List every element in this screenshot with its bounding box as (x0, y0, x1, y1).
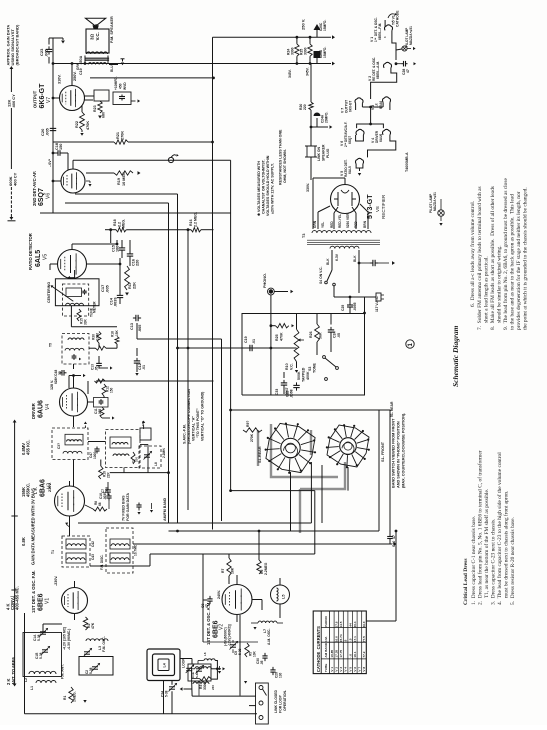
svg-text:7V FIXED BIAS: 7V FIXED BIAS (122, 495, 126, 521)
svg-text:MAZDA ⅑51: MAZDA ⅑51 (409, 26, 413, 45)
svg-text:V1: V1 (45, 598, 51, 604)
svg-text:V 3: V 3 (339, 667, 343, 672)
svg-text:MEG.: MEG. (122, 219, 126, 228)
svg-text:6AU6: 6AU6 (38, 400, 45, 418)
svg-text:20MFD.: 20MFD. (325, 112, 329, 123)
svg-text:BRN: BRN (363, 220, 367, 228)
wire: AVC bus y213 (40, 212, 231, 214)
wire: plate bus vertical x53 (52, 38, 54, 213)
resistor R2 47K (83, 617, 95, 630)
wires: IF cluster links (74, 442, 149, 487)
svg-text:V6: V6 (46, 193, 52, 199)
pilot lamp near rectifier (345, 166, 444, 226)
svg-text:.005: .005 (105, 487, 109, 493)
wire: B+ line y63.5 to filter (52, 62, 335, 66)
label: APPROX GAIN DATA USING SIGNALYST (BROADCAST BAND) (6, 24, 20, 66)
label C17 .005 (100, 284, 110, 293)
svg-text:.6: .6 (344, 639, 348, 642)
svg-text:250V.: 250V. (73, 71, 77, 81)
wires: transformer to rectifier (313, 178, 368, 229)
svg-text:R1: R1 (63, 696, 67, 700)
svg-text:15.74: 15.74 (339, 634, 343, 642)
svg-text:TUBE: TUBE (324, 664, 328, 672)
svg-text:17.75: 17.75 (339, 650, 343, 658)
wire: top stub with ground (49, 38, 65, 44)
label: 12K 400 CY (7, 94, 17, 108)
svg-text:270K: 270K (121, 131, 125, 140)
svg-text:F.M. ANT.: F.M. ANT. (61, 664, 65, 679)
label: OUTPUT 6K6-GT V7 (33, 83, 53, 109)
loop antenna L4 (147, 649, 186, 681)
wire: y472.6 line (110, 471, 170, 474)
svg-text:RED-YEL: RED-YEL (338, 214, 342, 228)
svg-text:400K: 400K (306, 371, 310, 380)
thick shielded leads to band switch (258, 424, 345, 533)
svg-text:✱ VOLTAGES MEASURED WITH: ✱ VOLTAGES MEASURED WITH (257, 161, 261, 216)
svg-text:2.2MH.: 2.2MH. (162, 448, 166, 458)
pilot lamp P1 Mazda 51 (396, 26, 416, 51)
wire: horizontal y348 (volume feed) (176, 347, 293, 350)
svg-text:OPERATION.: OPERATION. (283, 690, 287, 711)
label: 1ST DET & OSC FM 6BE6 V1 (31, 570, 58, 613)
svg-text:20.4: 20.4 (353, 621, 357, 627)
svg-text:(MAX. COUNTERCLOCKWISE POSITIO: (MAX. COUNTERCLOCKWISE POSITION). (402, 413, 406, 488)
resistor R26 56K (309, 313, 323, 342)
transformer T5 (dashed box with coils) (49, 334, 90, 365)
resistor R21 270K (in AF line) (114, 131, 128, 145)
svg-text:TONE: TONE (313, 362, 317, 373)
resistor R17 22K (125, 266, 137, 296)
svg-text:15MFD.: 15MFD. (323, 47, 327, 58)
wire: switch feed y490.6 (229, 410, 315, 554)
capacitor C33 .0047 (275, 372, 289, 396)
wires: V2 to lower heater rail (371, 68, 397, 99)
svg-text:R7: R7 (221, 569, 225, 573)
coil L3 FM osc (86, 636, 108, 652)
capacitor C13 .005 (130, 315, 142, 332)
box: volume-tone enclosure (242, 314, 365, 396)
svg-text:to the base and as near to the: to the base and as near to the back apro… (510, 194, 516, 330)
resistor R7 18K (221, 558, 235, 576)
capacitor C7 .005 (101, 487, 112, 509)
capacitor C24A 20MFD electrolytic (314, 112, 329, 127)
svg-text:LINK ON: LINK ON (317, 147, 321, 161)
svg-text:6SQ7: 6SQ7 (348, 136, 352, 144)
svg-text:AM BAND: AM BAND (324, 642, 328, 657)
wire: S4 lead down to AC line (333, 286, 335, 297)
ground arrows V2 area (218, 623, 257, 684)
svg-text:3300: 3300 (304, 47, 308, 55)
svg-text:R19: R19 (117, 178, 121, 185)
svg-text:V3: V3 (47, 483, 53, 489)
svg-text:LOOP: LOOP (182, 658, 186, 668)
svg-text:VOLTAGES SHOULD HOLD WITHIN: VOLTAGES SHOULD HOLD WITHIN (266, 155, 270, 216)
svg-text:-.5: -.5 (348, 638, 352, 642)
wire: detector bus y229.7 (105, 228, 214, 510)
svg-text:47K: 47K (91, 622, 95, 629)
transformer T2 FM detector (dashed box) (100, 528, 138, 573)
svg-text:6.3V: 6.3V (335, 253, 339, 261)
resistor R32 inline y381 (95, 379, 106, 383)
wires: osc coil network (192, 661, 226, 697)
svg-text:T1, as near the bottom of the: T1, as near the bottom of the FM shelf a… (483, 489, 490, 598)
svg-text:RECTIFIER: RECTIFIER (381, 194, 386, 219)
svg-text:.01: .01 (252, 339, 256, 344)
labels transformer leads (313, 212, 367, 228)
wire: band bus y554 (90, 544, 315, 566)
wire: V6 plate stub to y160 line (52, 160, 92, 186)
wire: V7 grid line left (52, 64, 60, 100)
output transformer T6 windings (85, 52, 109, 65)
capacitor C23 .005 (39, 38, 52, 64)
resistor R19b 22K (99, 460, 111, 480)
svg-text:BLK: BLK (353, 255, 357, 262)
svg-text:400-455 KC.: 400-455 KC. (15, 586, 20, 610)
svg-text:F.M. DISC.: F.M. DISC. (100, 554, 104, 570)
switch S3 tone (308, 340, 338, 380)
svg-text:2ND DET-AVC-AF.: 2ND DET-AVC-AF. (32, 171, 37, 206)
wire: phono jack line y160 (73, 160, 231, 410)
label: RATIO DETECTOR 6AL5 V5 (28, 233, 49, 270)
svg-text:3Ω: 3Ω (90, 33, 95, 40)
capacitor C18 150 grid (52, 143, 68, 170)
label: 600K 400 CY (8, 172, 18, 186)
svg-text:MAZDA ⅑51: MAZDA ⅑51 (433, 192, 437, 211)
svg-text:17.1: 17.1 (353, 636, 357, 642)
capacitor C8 47 (201, 596, 213, 608)
svg-text:V7: V7 (46, 97, 52, 103)
wire: screen line y77.9 (90, 77, 215, 80)
svg-text:V8: V8 (375, 206, 380, 212)
wire: antenna arrow left (180, 687, 192, 690)
coil L2 FM ant secondary (24, 671, 56, 682)
heater V3 IF filament (371, 97, 391, 110)
svg-text:3300: 3300 (291, 47, 295, 55)
svg-text:Critical Lead Dress: Critical Lead Dress (463, 558, 469, 605)
power transformer T3 (302, 231, 380, 261)
label: 1ST DET & OSC AM 6BE6 V2 (206, 590, 225, 645)
svg-text:100: 100 (141, 421, 145, 426)
heater V4 driver filament (371, 129, 391, 143)
wire: y339 line to x221.5 vertical (137, 323, 222, 521)
capacitor C29 130 (270, 667, 282, 678)
svg-text:SPEAKER: SPEAKER (322, 144, 326, 161)
capacitor C12 .01 (134, 348, 146, 376)
svg-text:345V.: 345V. (306, 67, 310, 76)
svg-text:.05: .05 (260, 660, 264, 665)
svg-text:BLU: BLU (110, 65, 114, 72)
svg-text:PHONO: PHONO (324, 616, 328, 628)
svg-text:400 CY: 400 CY (11, 94, 16, 108)
svg-text:WVD: WVD (123, 82, 127, 90)
svg-text:19.1: 19.1 (353, 651, 357, 657)
svg-text:GRN: GRN (313, 220, 317, 228)
wire: band bus y531 (169, 530, 380, 533)
svg-text:short a lead length as practic: short a lead length as practical. (484, 256, 490, 323)
svg-text:100: 100 (135, 457, 139, 462)
label: 0.8K 455KC (21, 537, 26, 546)
svg-text:400 CY: 400 CY (13, 172, 18, 186)
svg-text:.005: .005 (105, 284, 110, 293)
resistor R22 470K grid leak (75, 105, 90, 136)
svg-text:PLUG: PLUG (326, 148, 330, 158)
svg-text:OUTPUT: OUTPUT (33, 90, 38, 108)
resistor R13 1MEG (100, 407, 115, 420)
svg-text:310V.: 310V. (58, 74, 62, 84)
svg-text:R23: R23 (93, 105, 97, 112)
label: I.F. 6BA6 V3 (33, 479, 53, 497)
ground for heater string (356, 164, 363, 176)
svg-text:-.6V*: -.6V* (48, 158, 52, 167)
svg-text:TAPPED: TAPPED (302, 367, 306, 382)
wire: V6 diode outputs y194 y203 (65, 194, 178, 523)
svg-text:F.M. OSC.: F.M. OSC. (102, 636, 106, 652)
arrow: tuning indicator (69, 374, 86, 388)
resistor R30 1000 (92, 332, 102, 349)
svg-text:22K: 22K (107, 471, 111, 478)
svg-text:R10: R10 (285, 363, 289, 370)
wire: y381 grid line (96, 380, 214, 382)
svg-text:C43: C43 (91, 554, 95, 560)
svg-text:DRIVER: DRIVER (31, 403, 36, 419)
svg-text:C24: C24 (333, 331, 337, 338)
wire: power to volume box (363, 297, 366, 314)
svg-text:150: 150 (59, 144, 63, 150)
svg-text:66.0: 66.0 (362, 621, 366, 627)
wire: AF line y142 (53, 133, 214, 144)
svg-text:.005: .005 (44, 48, 49, 57)
svg-text:6AL5: 6AL5 (35, 250, 42, 267)
svg-text:16.6: 16.6 (335, 636, 339, 642)
trimmer box C1E loop series (188, 664, 215, 690)
trimmer C9 osc (230, 640, 243, 655)
jack J1 phono input (168, 154, 178, 163)
svg-text:0.8K: 0.8K (21, 537, 26, 546)
capacitor C24 .05 (328, 313, 341, 340)
terminal strip: link closed for loop operation (256, 683, 288, 724)
heater V5 ratio det filament (340, 158, 364, 177)
note lines 6-9 (lead dress continued) (469, 178, 529, 330)
wires: V4 connections (53, 364, 104, 427)
svg-text:C19: C19 (244, 336, 248, 343)
transformer T2 FM IF (dashed box) (106, 421, 146, 468)
svg-text:270K: 270K (250, 433, 254, 442)
wire: right vertical x396 down to table (366, 530, 397, 621)
resistor R33 100 right (131, 452, 139, 464)
label: 155K 455KC (21, 483, 31, 497)
wire: B+ bus y37.2 (213, 35, 336, 39)
svg-text:RESISTANCES LESS THAN ONE: RESISTANCES LESS THAN ONE (279, 129, 283, 185)
svg-text:R16: R16 (189, 219, 193, 226)
switch S1-FRONT wafer (326, 424, 385, 468)
svg-text:R18: R18 (111, 331, 115, 337)
wires: loop to bus (164, 659, 200, 714)
svg-text:-4.2V (105 MC): -4.2V (105 MC) (63, 627, 67, 650)
svg-text:A.M. OSC.: A.M. OSC. (267, 629, 271, 645)
svg-text:YEL: YEL (321, 222, 325, 228)
svg-text:VERTICAL “O” TO GROUND): VERTICAL “O” TO GROUND) (201, 391, 205, 441)
svg-text:.0055: .0055 (353, 302, 357, 311)
note: resistances less than one ohm (279, 129, 288, 185)
svg-text:150: 150 (110, 387, 114, 393)
wires: V6/V4 row with right jog (356, 107, 396, 157)
resistor R34 33K below ratio det box (77, 309, 88, 325)
resistor R23 680 cathode (93, 101, 106, 119)
capacitor C22 .0068 (286, 368, 300, 398)
capacitor C26B 15MFD electrolytic (314, 20, 328, 38)
svg-text:450: 450 (119, 83, 123, 89)
wire: C19 line to VC (255, 347, 297, 350)
jack J2 PHONO (263, 273, 293, 395)
table: cathode currents (313, 611, 366, 674)
capacitor C10 47 bottom (387, 410, 396, 547)
svg-text:R17: R17 (128, 282, 132, 289)
label: 2K ANT TO 6BE6 (6, 656, 16, 685)
switch S1-REAR wafer (258, 423, 316, 474)
transformer T1 AM IF (dashed box) (51, 536, 95, 567)
svg-text:6BA6: 6BA6 (379, 101, 383, 109)
wires: heater winding leads (326, 250, 359, 270)
svg-text:V 6: V 6 (353, 667, 357, 672)
svg-text:T1: T1 (51, 550, 55, 554)
capacitor C48 33 (53, 370, 67, 376)
svg-text:R25: R25 (275, 334, 279, 341)
svg-text:51- REAR: 51- REAR (390, 401, 394, 417)
capacitor C26D electrolytic square (314, 47, 328, 64)
svg-text:1000: 1000 (93, 452, 97, 459)
svg-text:2.2MEG: 2.2MEG (264, 562, 268, 575)
label bias voltages V2 (224, 624, 232, 646)
svg-text:.0039: .0039 (114, 297, 118, 307)
box: FM osc trimmer unit C2B (79, 657, 113, 676)
svg-text:77.2: 77.2 (362, 651, 366, 657)
svg-text:METER: METER (93, 301, 97, 313)
svg-text:7. Solder FM antenna coil pri: 7. Solder FM antenna coil primary leads … (477, 186, 483, 330)
svg-text:68: 68 (98, 502, 102, 506)
wire: band bus y523 (101, 462, 311, 523)
svg-text:the point at which it is groun: the point at which it is grounded to the… (523, 187, 529, 330)
wires: V2 area (192, 554, 280, 706)
svg-text:must be dressed next to chassi: must be dressed next to chassis along fr… (503, 491, 510, 598)
svg-text:3. Dress capacitor C-23 next: 3. Dress capacitor C-23 next to chassis. (491, 519, 497, 605)
coil L6 AM osc feedback (192, 652, 216, 660)
svg-text:V 5: V 5 (348, 667, 352, 672)
resistor R18 2.2MEG (inline) (113, 219, 126, 232)
tube V1 6BE6 FM converter (62, 588, 88, 614)
label: 2ND DET-AVC-AF 6SQ7 V6 (32, 158, 52, 206)
svg-text:.44: .44 (348, 623, 352, 628)
svg-text:AM/FM BAND: AM/FM BAND (163, 497, 167, 521)
wire: speaker secondary to ground (76, 59, 125, 72)
wires: V1 area (25, 581, 89, 714)
ground for R1 (83, 700, 86, 703)
svg-text:OHM, NOT SHOWN.: OHM, NOT SHOWN. (283, 149, 287, 183)
svg-text:10K: 10K (253, 650, 257, 657)
svg-text:47: 47 (406, 69, 410, 73)
svg-text:S.AVC.-F.M.: S.AVC.-F.M. (183, 424, 187, 444)
svg-text:1MEG.: 1MEG. (73, 691, 77, 702)
switch S4 on volume control (319, 267, 335, 286)
capacitor C14 .0039 (110, 290, 124, 307)
label: DRIVER 6AU6 V4 (31, 376, 58, 419)
svg-text:1000: 1000 (96, 333, 100, 340)
box: FM RF trimmer unit C1A C1B (23, 628, 62, 677)
capacitor C46 .0039 (99, 482, 111, 500)
svg-text:470K: 470K (280, 332, 284, 341)
resistor R25 3300 (300, 37, 313, 63)
svg-text:500K: 500K (297, 371, 301, 380)
svg-text:10 MEG.: 10 MEG. (122, 171, 126, 186)
svg-text:-4.3V (90MC.): -4.3V (90MC.) (67, 629, 71, 650)
svg-text:(OSCILLOSCOPE CONNECTION: (OSCILLOSCOPE CONNECTION (187, 389, 191, 444)
svg-text:S1- FRONT: S1- FRONT (381, 441, 385, 462)
label: 0.8MV 455KC (21, 440, 31, 455)
svg-text:L1: L1 (30, 686, 34, 690)
svg-text:P.M. SPEAKER: P.M. SPEAKER (110, 16, 114, 43)
choke L8 2.2MH box (139, 421, 166, 468)
svg-text:C19 450A: C19 450A (79, 55, 83, 75)
svg-text:18K: 18K (231, 567, 235, 574)
svg-text:2.2 MEG.: 2.2 MEG. (194, 212, 198, 227)
svg-text:.005: .005 (138, 325, 142, 332)
svg-text:RATIO DETECTOR: RATIO DETECTOR (28, 233, 33, 270)
svg-text:(BROADCAST BAND): (BROADCAST BAND) (15, 24, 20, 66)
capacitor C11 .005 + box (94, 398, 109, 416)
label: 5Y3-GT V8 RECTIFIER (367, 194, 386, 219)
svg-text:C33: C33 (275, 389, 279, 395)
svg-text:L6: L6 (203, 652, 207, 656)
wire: long vertical x213 (B+ to switch) (212, 37, 214, 529)
coil L2B AM osc grid (186, 664, 212, 673)
heater V7 output filament (341, 98, 364, 113)
heater V1 6BE6 FM filament (370, 17, 395, 42)
capacitor C20 .005 coupling (40, 112, 56, 136)
dimension line: approx gain data bracket (broadcast band) (8, 66, 16, 221)
svg-text:4. The lead from capacitor C-: 4. The lead from capacitor C-23 to the h… (496, 452, 503, 605)
svg-text:LINK CLOSED: LINK CLOSED (274, 689, 278, 713)
marker: circled 1 (406, 340, 414, 348)
wires: wafer connections down (291, 410, 380, 531)
svg-text:6AU6: 6AU6 (379, 134, 383, 142)
svg-text:ANT. TO 6BE6: ANT. TO 6BE6 (11, 656, 16, 685)
heater V6 det filament (340, 122, 364, 147)
label: 7V FIXED BIAS FOR GAIN DATA (122, 493, 154, 521)
tube V7 6K6-GT output (60, 86, 85, 111)
svg-text:220: 220 (303, 104, 307, 110)
resistor R18b 15K (111, 329, 120, 344)
svg-text:C42: C42 (91, 541, 95, 547)
svg-text:CATHODE CURRENTS: CATHODE CURRENTS (316, 626, 321, 672)
tube V3 6BA6 IF amplifier (55, 486, 85, 516)
capacitor C47 1000 between boxes (88, 446, 106, 459)
resistor R1 1MEG (63, 687, 77, 703)
note: band switch viewed from front (392, 413, 406, 488)
svg-text:-230V.: -230V. (54, 576, 58, 586)
tube V4 6AU6 driver (60, 388, 88, 416)
svg-text:455 KC.: 455 KC. (26, 440, 31, 455)
capacitor C13b .05 with ground (91, 356, 113, 371)
svg-text:470K: 470K (86, 121, 90, 130)
svg-text:Schematic Diagram: Schematic Diagram (451, 325, 460, 387)
svg-text:V 1: V 1 (330, 667, 334, 672)
svg-text:L8: L8 (154, 462, 158, 466)
svg-text:PHONO.: PHONO. (263, 273, 267, 288)
svg-text:T5: T5 (49, 343, 53, 347)
wire: cathode connection (85, 99, 94, 101)
svg-text:L4: L4 (163, 663, 167, 667)
svg-text:V 8: V 8 (362, 667, 366, 672)
svg-text:6. Dress all a-c leads away f: 6. Dress all a-c leads away from volume … (469, 201, 476, 307)
